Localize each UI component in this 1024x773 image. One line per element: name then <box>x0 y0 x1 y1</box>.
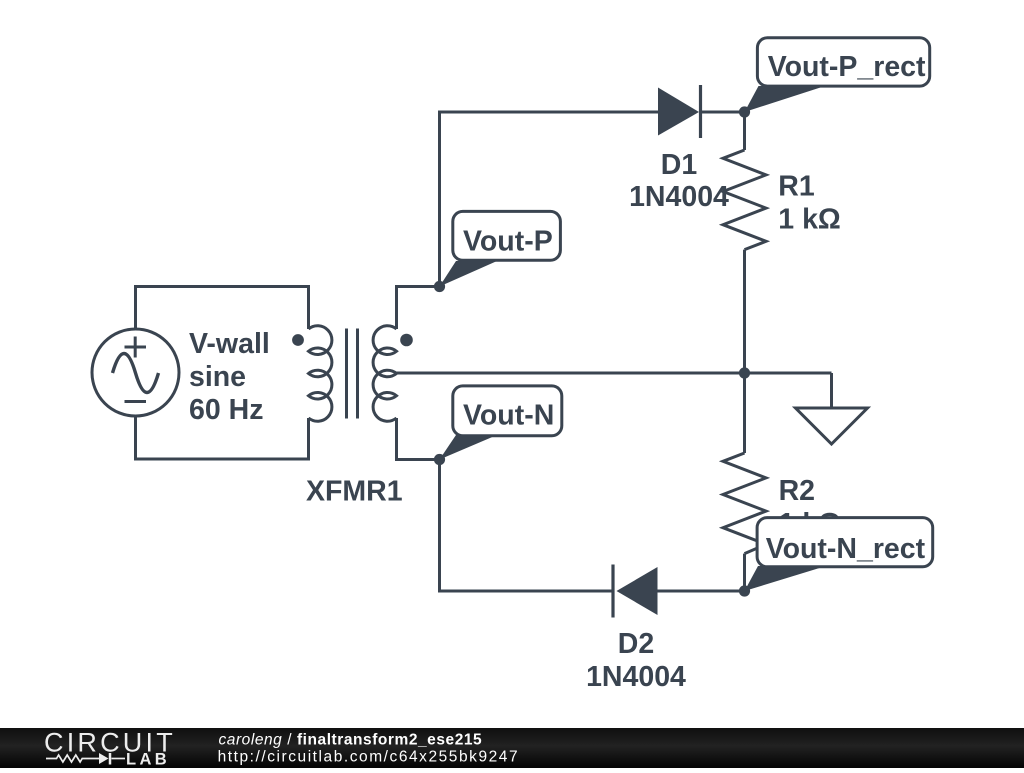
flag Vout-N tail <box>440 435 498 460</box>
wire R1 bottom lead to center-tap node <box>743 250 746 373</box>
voltage source V1 circle <box>92 329 179 416</box>
footer logo resistor-diode glyph <box>46 755 99 762</box>
wire R2 top lead <box>743 373 746 453</box>
svg-text:XFMR1: XFMR1 <box>306 476 403 508</box>
junction node dot Vout-P <box>434 281 445 292</box>
transformer XFMR1 secondary coil <box>373 326 396 421</box>
flag Vout-P_rect tail <box>745 86 826 112</box>
svg-text:Vout-P_rect: Vout-P_rect <box>768 51 926 83</box>
svg-text:http://circuitlab.com/c64x255b: http://circuitlab.com/c64x255bk9247 <box>218 749 520 766</box>
svg-text:Vout-N_rect: Vout-N_rect <box>766 533 926 565</box>
diode D2 cathode bar <box>611 565 614 618</box>
flag Vout-P box <box>453 211 561 260</box>
resistor R1 zigzag <box>723 150 766 250</box>
wire center tap to ground corner <box>397 372 832 375</box>
svg-text:Vout-N: Vout-N <box>463 400 554 432</box>
voltage source minus sign <box>125 400 147 403</box>
diode D1 triangle <box>658 88 699 136</box>
svg-text:1N4004: 1N4004 <box>629 181 729 213</box>
svg-text:V-wall: V-wall <box>189 328 270 360</box>
svg-text:sine: sine <box>189 361 246 393</box>
svg-text:caroleng / finaltransform2_ese: caroleng / finaltransform2_ese215 <box>219 731 483 748</box>
junction node dot center tap <box>739 367 750 378</box>
wire R2 bottom lead to node Vout-N_rect <box>743 554 746 591</box>
svg-text:1 kΩ: 1 kΩ <box>778 203 840 235</box>
svg-text:R2: R2 <box>779 475 815 507</box>
svg-text:60 Hz: 60 Hz <box>189 394 263 426</box>
wire node Vout-N down to D2 <box>440 460 614 592</box>
svg-text:R1: R1 <box>778 171 815 203</box>
svg-text:Vout-P: Vout-P <box>463 225 553 257</box>
wire secondary bottom terminal to node Vout-N <box>397 418 440 460</box>
flag Vout-P tail <box>440 261 498 287</box>
wire D2 anode to node Vout-N_rect <box>658 590 745 593</box>
flag Vout-N_rect tail <box>745 566 827 591</box>
voltage source sine symbol <box>113 354 159 393</box>
transformer XFMR1 core bars <box>347 329 358 419</box>
voltage source plus sign <box>125 337 147 358</box>
svg-text:D1: D1 <box>661 149 698 181</box>
svg-text:D2: D2 <box>618 628 654 660</box>
junction node dot Vout-N <box>434 454 445 465</box>
wire node Vout-P up to D1 anode <box>440 112 659 287</box>
footer bar <box>0 728 1024 768</box>
wire ground drop <box>830 373 833 408</box>
diode D2 triangle <box>617 567 658 615</box>
flag Vout-P_rect box <box>757 38 929 86</box>
svg-text:LAB: LAB <box>126 751 170 769</box>
resistor R2 zigzag <box>723 453 766 554</box>
wire secondary top terminal to node Vout-P <box>397 287 440 330</box>
wire primary loop left/top/bottom <box>136 287 309 460</box>
transformer XFMR1 primary coil <box>309 326 332 421</box>
diode D1 cathode bar <box>699 85 702 138</box>
wire D1 cathode to node Vout-P_rect <box>702 111 745 114</box>
flag Vout-N box <box>453 386 562 436</box>
junction node dot Vout-P_rect <box>739 106 750 117</box>
svg-text:1N4004: 1N4004 <box>586 661 686 693</box>
wire R1 top lead <box>743 112 746 150</box>
flag Vout-N_rect box <box>757 518 933 567</box>
transformer primary polarity dot <box>292 334 304 346</box>
transformer secondary polarity dot <box>400 334 413 347</box>
ground symbol <box>796 408 868 444</box>
junction node dot Vout-N_rect <box>739 585 750 596</box>
